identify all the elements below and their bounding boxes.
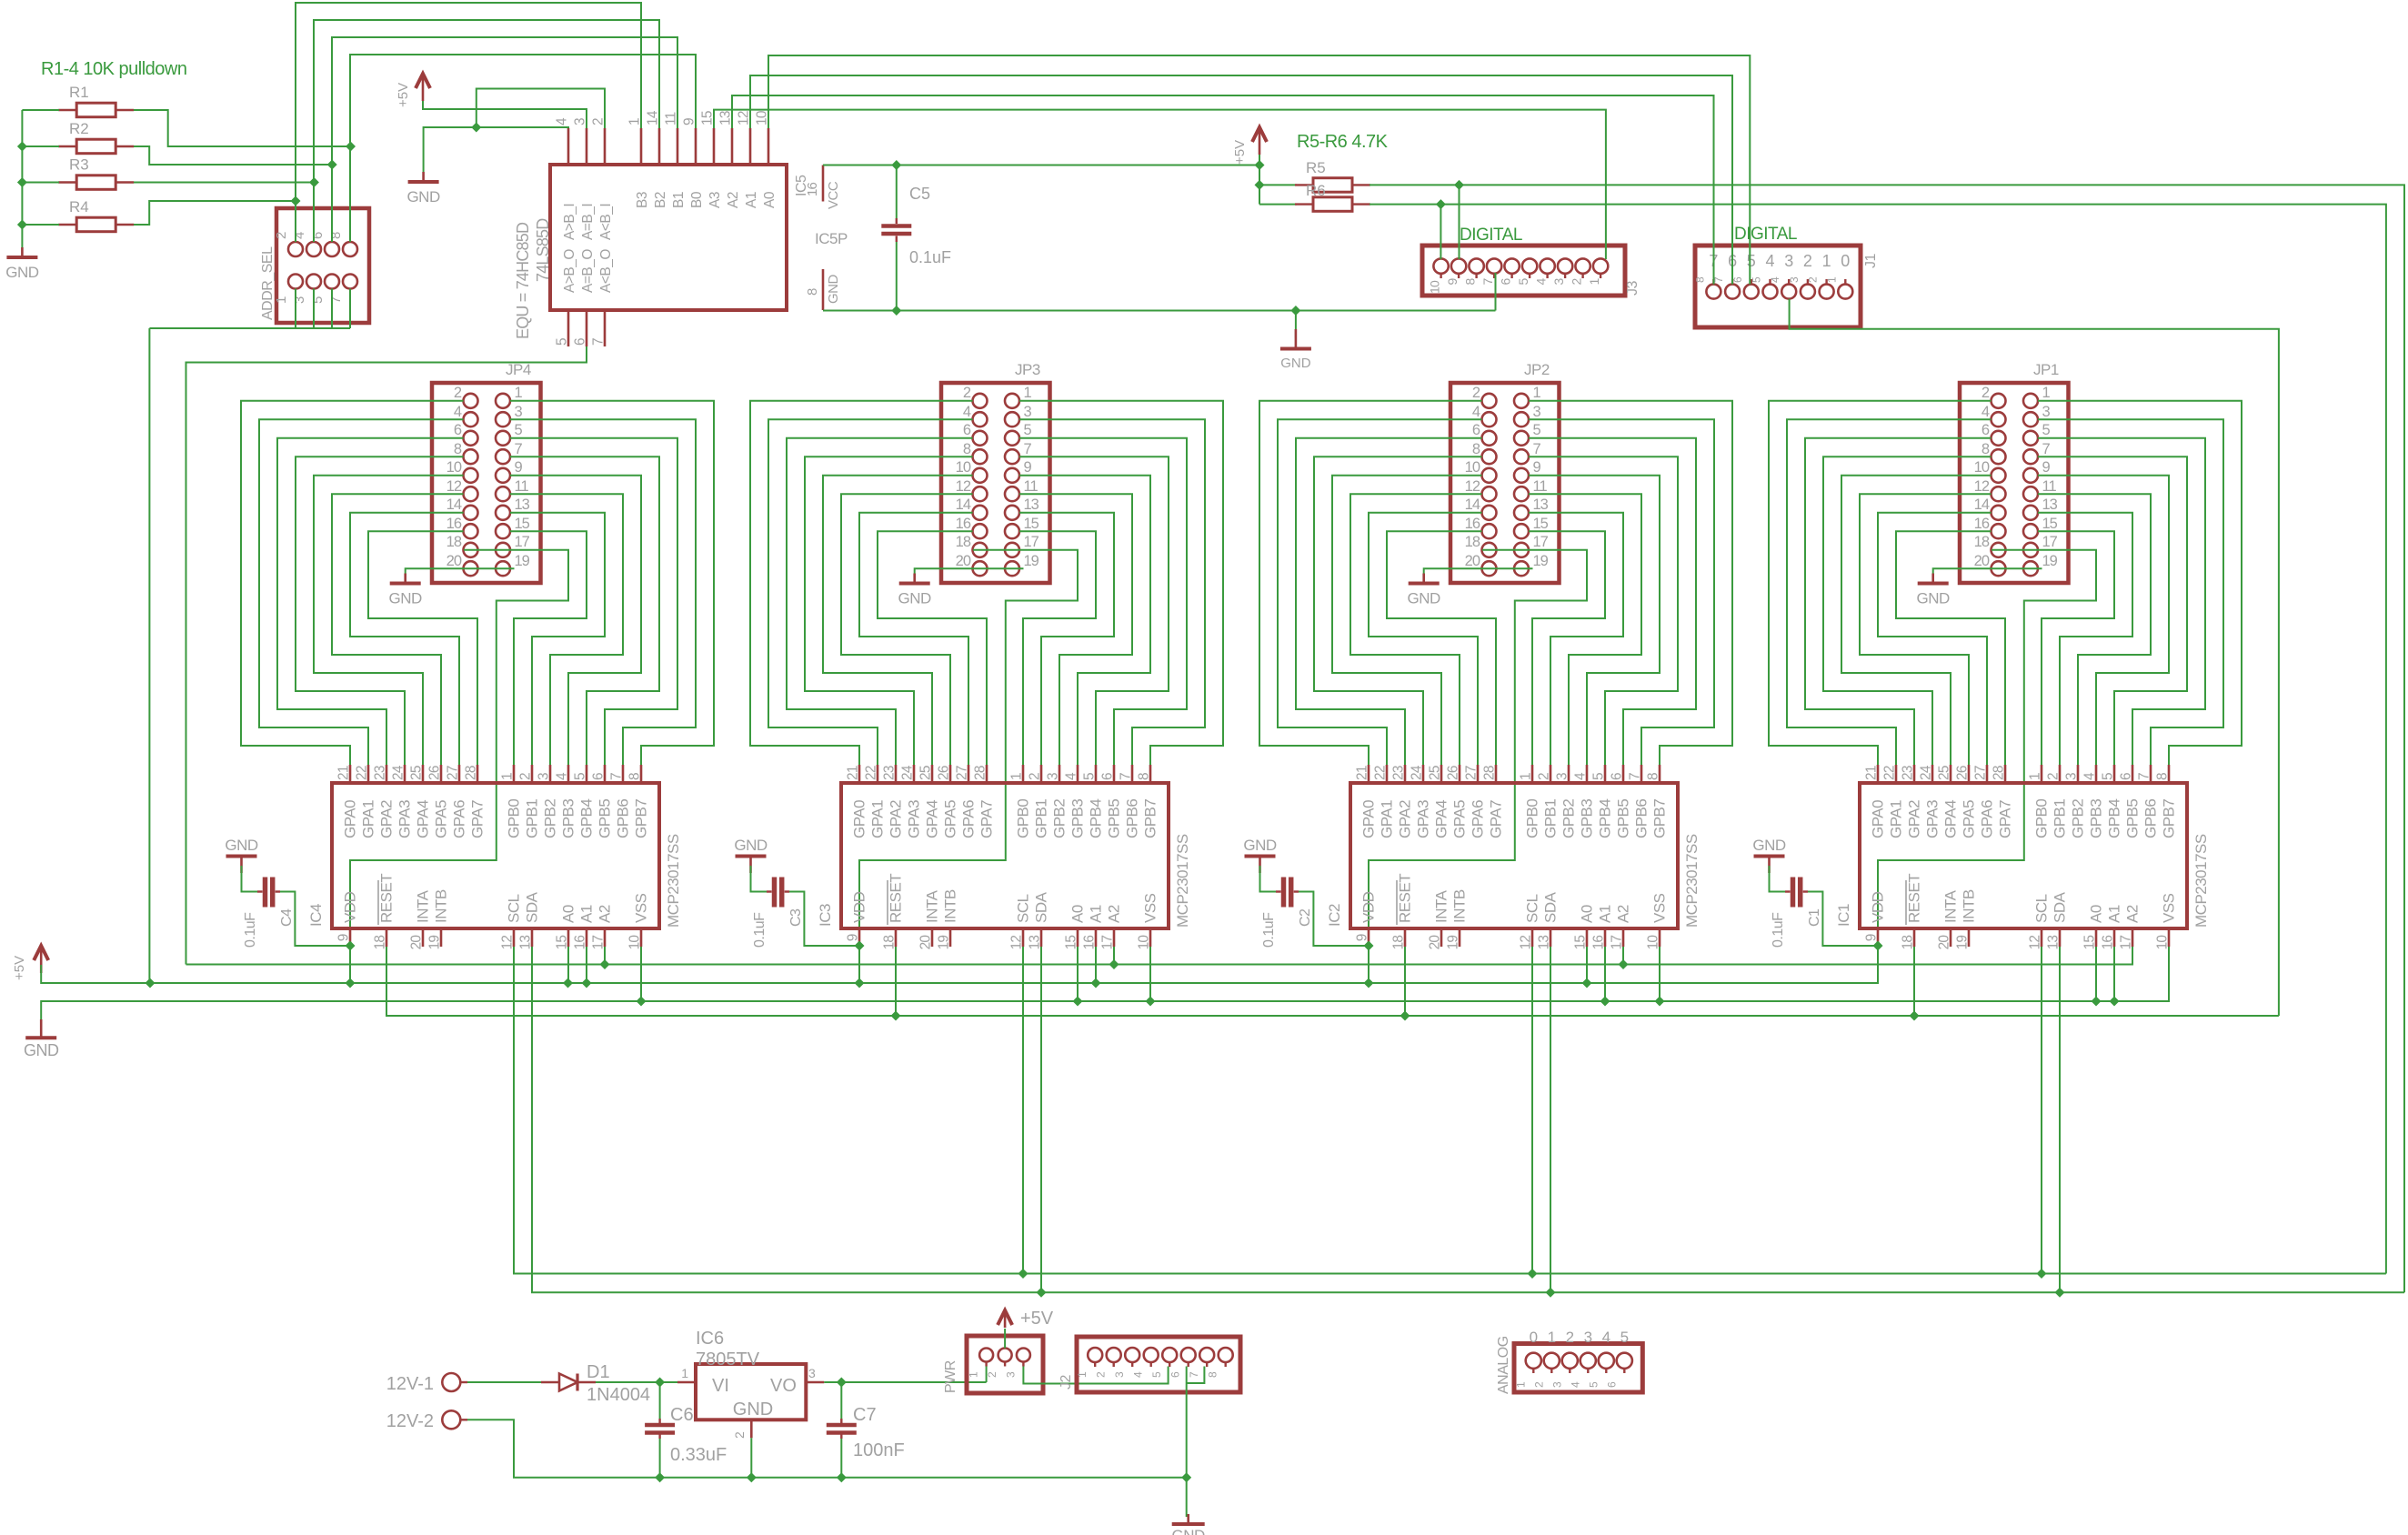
wire J2 pin6 to GND	[1186, 1367, 1188, 1518]
svg-text:J3: J3	[1625, 281, 1640, 296]
svg-text:GPA7: GPA7	[1997, 800, 2014, 838]
wire JP2 pin16 to GPA7	[1387, 531, 1496, 765]
svg-text:6: 6	[1982, 422, 1990, 438]
junction	[1546, 1288, 1556, 1298]
svg-text:3: 3	[1550, 1381, 1563, 1388]
junction	[327, 160, 337, 170]
svg-text:10: 10	[446, 459, 462, 476]
svg-text:A1: A1	[578, 905, 596, 923]
svg-text:11: 11	[1024, 478, 1038, 495]
svg-text:5: 5	[1620, 1329, 1629, 1346]
svg-text:VO: VO	[770, 1376, 797, 1396]
svg-text:RESET: RESET	[378, 874, 396, 923]
svg-text:C4: C4	[279, 908, 295, 927]
svg-text:12: 12	[1009, 936, 1025, 950]
svg-text:21: 21	[1355, 766, 1370, 780]
svg-text:GPA7: GPA7	[978, 800, 996, 838]
supply +5V (pullups)	[1232, 127, 1267, 165]
svg-text:GPB3: GPB3	[2088, 799, 2105, 838]
svg-text:VSS: VSS	[2161, 893, 2178, 923]
svg-text:1: 1	[1024, 385, 1032, 401]
svg-text:8: 8	[1137, 773, 1152, 780]
svg-text:19: 19	[1446, 936, 1461, 950]
wire R4 net	[134, 201, 296, 225]
wire ADDR_SEL common to +5V bus	[295, 289, 296, 329]
svg-text:25: 25	[409, 766, 425, 780]
svg-text:0: 0	[1530, 1329, 1538, 1346]
wire JP2 pin1 to GPB7	[1529, 401, 1732, 765]
wire SCL IC4	[513, 947, 515, 1274]
wire JP3 pin3 to GPB6	[1019, 419, 1205, 765]
svg-text:17: 17	[2119, 936, 2134, 950]
svg-text:15: 15	[1533, 516, 1549, 532]
wire VSS IC2	[1659, 947, 1661, 1001]
svg-text:INTB: INTB	[433, 889, 450, 923]
wire JP4 pins19-20 to GND	[406, 568, 515, 576]
svg-text:MCP23017SS: MCP23017SS	[1174, 834, 1191, 928]
wire JP1 pin7 to GPB4	[2038, 456, 2187, 765]
svg-text:1: 1	[627, 118, 643, 125]
capacitor C5 0.1uF	[881, 166, 951, 311]
svg-text:27: 27	[446, 766, 461, 780]
wire SCL IC1	[2041, 947, 2042, 1274]
wire SDA pullup net (R5)	[1370, 185, 2404, 1292]
svg-text:7: 7	[1533, 441, 1541, 457]
svg-text:16: 16	[1082, 936, 1098, 950]
svg-text:7: 7	[1119, 773, 1134, 780]
wire A2 IC2	[1622, 947, 1624, 965]
svg-text:7805TV: 7805TV	[696, 1349, 760, 1369]
svg-text:17: 17	[1100, 936, 1116, 950]
svg-text:2: 2	[1532, 1381, 1545, 1388]
wire JP2 pin4 to GPA1	[1278, 419, 1482, 765]
svg-text:23: 23	[1391, 766, 1407, 780]
wire JP3 pin4 to GPA1	[768, 419, 973, 765]
svg-text:9: 9	[1864, 934, 1880, 941]
svg-text:14: 14	[646, 110, 661, 125]
svg-text:GPB1: GPB1	[1033, 799, 1050, 838]
svg-text:IC6: IC6	[696, 1329, 724, 1349]
svg-text:20: 20	[956, 553, 971, 569]
capacitor C6 0.33uF	[645, 1382, 727, 1478]
svg-text:SDA: SDA	[2052, 891, 2069, 923]
junction (VDD IC2)	[1364, 941, 1374, 951]
svg-text:VSS: VSS	[1142, 893, 1159, 923]
junction	[346, 142, 356, 152]
svg-text:4: 4	[1534, 278, 1549, 286]
svg-text:R1-4 10K pulldown: R1-4 10K pulldown	[41, 59, 187, 79]
svg-text:6: 6	[2119, 773, 2134, 780]
svg-text:R5: R5	[1306, 159, 1326, 176]
ground (R1-R4)	[5, 247, 39, 281]
svg-text:R2: R2	[69, 120, 89, 137]
junction	[1255, 160, 1265, 170]
svg-text:12: 12	[2028, 936, 2043, 950]
IC IC4 MCP23017SS	[307, 765, 682, 949]
svg-text:GND: GND	[225, 837, 258, 854]
svg-text:RESET: RESET	[1397, 874, 1414, 923]
svg-text:JP3: JP3	[1015, 361, 1040, 378]
wire A0 IC3	[1077, 947, 1079, 1001]
wire JP2 pin10 to GPA4	[1332, 476, 1482, 765]
junction	[471, 123, 481, 133]
svg-text:5: 5	[1082, 773, 1098, 780]
junction	[1091, 978, 1101, 988]
svg-text:3: 3	[1046, 773, 1061, 780]
svg-text:8: 8	[2155, 773, 2171, 780]
svg-text:0.1uF: 0.1uF	[1261, 912, 1277, 948]
svg-text:4: 4	[1769, 276, 1781, 283]
ground (C4)	[225, 837, 258, 873]
wire net B2	[314, 20, 659, 242]
svg-text:1: 1	[1009, 773, 1025, 780]
svg-text:+5V: +5V	[1020, 1309, 1054, 1329]
wire JP4 pin3 to GPB6	[510, 419, 696, 765]
svg-text:GPB4: GPB4	[1088, 799, 1105, 838]
svg-text:GND: GND	[1408, 590, 1441, 607]
ground (power rail)	[1172, 1514, 1206, 1535]
svg-text:15: 15	[700, 111, 716, 125]
svg-text:18: 18	[1391, 936, 1407, 950]
svg-text:GPB3: GPB3	[1069, 799, 1087, 838]
svg-text:16: 16	[573, 936, 588, 950]
wire VDD IC1 to +5V bus	[1877, 947, 1879, 983]
svg-text:17: 17	[1610, 936, 1625, 950]
svg-text:1: 1	[500, 773, 516, 780]
wire JP3 pin7 to GPB4	[1019, 456, 1169, 765]
wire JP3 pin12 to GPA5	[841, 494, 973, 765]
IC U5P power pins	[805, 166, 848, 311]
svg-text:4: 4	[1132, 1371, 1145, 1378]
wire JP1 pin12 to GPA5	[1860, 494, 1992, 765]
svg-text:GND: GND	[1917, 590, 1951, 607]
svg-text:18: 18	[446, 534, 462, 550]
svg-text:3: 3	[1555, 773, 1570, 780]
wire JP2 pin6 to GPA2	[1296, 438, 1482, 765]
wire A2SEL net from IC5 pin6	[186, 346, 587, 965]
svg-text:JP2: JP2	[1524, 361, 1550, 378]
svg-text:2: 2	[1028, 773, 1043, 780]
junction	[1073, 997, 1083, 1007]
svg-text:J1: J1	[1863, 254, 1879, 269]
wire JP1 pin9 to GPB3	[2038, 476, 2169, 765]
svg-text:24: 24	[391, 765, 406, 780]
svg-text:GPA6: GPA6	[960, 800, 978, 838]
svg-text:GND: GND	[406, 188, 440, 206]
svg-text:A2: A2	[1106, 905, 1123, 923]
svg-text:DIGITAL: DIGITAL	[1734, 225, 1797, 244]
svg-text:A0: A0	[762, 191, 778, 208]
svg-text:16: 16	[2101, 936, 2116, 950]
wire JP1 pins19-20 to GND	[1933, 568, 2042, 576]
svg-text:100nF: 100nF	[853, 1440, 905, 1460]
svg-text:GPB6: GPB6	[1633, 799, 1650, 838]
svg-text:2: 2	[1807, 276, 1820, 283]
svg-text:17: 17	[515, 534, 530, 550]
svg-text:21: 21	[846, 766, 861, 780]
wire JP4 pin16 to GPA7	[368, 531, 477, 765]
wire A2 bus	[186, 947, 2133, 965]
supply +5V (PWR)	[998, 1309, 1054, 1329]
svg-text:GPA6: GPA6	[1979, 800, 1996, 838]
svg-text:GPA0: GPA0	[1870, 800, 1887, 838]
svg-text:25: 25	[918, 766, 934, 780]
svg-text:ADDR_SEL: ADDR_SEL	[260, 246, 276, 320]
wire JP4 pin5 to GPB5	[510, 438, 677, 765]
svg-text:GPB7: GPB7	[1651, 799, 1669, 838]
svg-text:13: 13	[515, 497, 530, 513]
svg-text:25: 25	[1428, 766, 1443, 780]
svg-text:GND: GND	[1172, 1527, 1206, 1535]
wire JP2 pin9 to GPB3	[1529, 476, 1660, 765]
wire SCL bus	[514, 947, 2386, 1274]
svg-text:12V-2: 12V-2	[386, 1411, 434, 1431]
svg-text:A3: A3	[707, 192, 723, 208]
svg-text:2: 2	[1537, 773, 1552, 780]
junction	[582, 978, 592, 988]
wire +5V bus	[41, 946, 1878, 983]
svg-text:GPA7: GPA7	[1488, 800, 1505, 838]
svg-text:2: 2	[518, 773, 534, 780]
svg-text:GND: GND	[1752, 837, 1786, 854]
svg-text:2: 2	[2046, 773, 2062, 780]
svg-text:IC4: IC4	[307, 904, 325, 927]
header ADDR_SEL	[260, 208, 369, 323]
ground (main rail)	[24, 1019, 59, 1059]
svg-text:SCL: SCL	[1015, 894, 1032, 923]
svg-text:2: 2	[454, 385, 462, 401]
wire R6 to J3 pin10	[1440, 205, 1441, 259]
svg-text:1: 1	[1533, 385, 1541, 401]
svg-text:0.1uF: 0.1uF	[243, 912, 258, 948]
svg-text:A0: A0	[1069, 905, 1087, 923]
wire RESET bus	[386, 947, 2279, 1016]
svg-text:GND: GND	[733, 1400, 773, 1420]
svg-text:C3: C3	[788, 908, 804, 927]
svg-text:17: 17	[1533, 534, 1549, 550]
svg-text:GPB0: GPB0	[506, 799, 523, 838]
svg-text:2: 2	[1570, 278, 1584, 286]
svg-text:6: 6	[591, 773, 607, 780]
svg-text:26: 26	[1446, 766, 1461, 780]
svg-text:8: 8	[328, 232, 344, 239]
svg-text:6: 6	[963, 422, 971, 438]
svg-text:GPA2: GPA2	[888, 800, 905, 838]
svg-text:A<B_O: A<B_O	[598, 249, 614, 293]
svg-text:GPB4: GPB4	[578, 799, 596, 838]
svg-text:GPA2: GPA2	[1906, 800, 1923, 838]
wire JP1 pins17-18 to VDD	[1878, 550, 2096, 928]
svg-text:GPA3: GPA3	[1415, 800, 1432, 838]
svg-text:18: 18	[373, 936, 388, 950]
junction	[1400, 1011, 1410, 1021]
svg-text:A1: A1	[1597, 905, 1614, 923]
svg-text:16: 16	[1974, 516, 1990, 532]
svg-text:J2: J2	[1059, 1375, 1074, 1390]
junction	[1364, 978, 1374, 988]
svg-text:GPA1: GPA1	[360, 800, 377, 838]
svg-text:GND: GND	[24, 1041, 59, 1059]
svg-text:GPA3: GPA3	[396, 800, 414, 838]
svg-text:27: 27	[1973, 766, 1989, 780]
svg-text:GPA5: GPA5	[433, 800, 450, 838]
svg-text:6: 6	[1605, 1381, 1618, 1388]
svg-text:14: 14	[446, 497, 462, 513]
svg-text:2: 2	[1982, 385, 1990, 401]
wire R5 to J3 pin9	[1459, 185, 1460, 259]
svg-text:5: 5	[1587, 1381, 1600, 1388]
wire JP3 pin16 to GPA7	[878, 531, 987, 765]
svg-text:0.33uF: 0.33uF	[670, 1445, 727, 1465]
svg-text:C1: C1	[1807, 908, 1822, 927]
svg-text:15: 15	[515, 516, 530, 532]
svg-text:GPB3: GPB3	[560, 799, 577, 838]
svg-text:7: 7	[1024, 441, 1032, 457]
junction	[2092, 997, 2102, 1007]
svg-text:13: 13	[1024, 497, 1039, 513]
wire SCL pullup net (R6)	[1370, 205, 2386, 1274]
junction	[1018, 1269, 1028, 1279]
svg-text:3: 3	[573, 118, 588, 125]
junction	[747, 1472, 757, 1482]
junction	[837, 1472, 847, 1482]
svg-text:5: 5	[1150, 1371, 1163, 1378]
svg-text:27: 27	[1464, 766, 1480, 780]
svg-text:A0: A0	[560, 905, 577, 923]
wire JP2 pin11 to GPB2	[1529, 494, 1641, 765]
svg-text:21: 21	[336, 766, 352, 780]
wire JP3 pin15 to GPB0	[1019, 531, 1096, 765]
svg-text:11: 11	[664, 112, 679, 125]
svg-text:R1: R1	[69, 84, 89, 101]
ground (C1)	[1752, 837, 1786, 873]
junction (VDD IC4)	[346, 941, 356, 951]
wire IC5 A0 to J1	[768, 55, 1750, 285]
wire J3 pin1 to IC5 A3	[714, 110, 1606, 259]
supply +5V (main rail)	[12, 946, 48, 980]
svg-text:7: 7	[609, 773, 625, 780]
svg-text:12: 12	[1519, 936, 1534, 950]
svg-text:19: 19	[515, 553, 530, 569]
svg-text:VCC: VCC	[826, 181, 841, 209]
header JP1	[1960, 361, 2069, 583]
svg-text:19: 19	[1533, 553, 1549, 569]
wire GND bus	[41, 947, 2169, 1019]
svg-text:4: 4	[454, 404, 462, 420]
junction	[1655, 997, 1665, 1007]
junction	[1146, 997, 1156, 1007]
svg-text:INTB: INTB	[1451, 889, 1469, 923]
svg-text:IC5P: IC5P	[815, 230, 848, 247]
ground (JP1)	[1917, 574, 1951, 607]
wire JP3 pin6 to GPA2	[787, 438, 973, 765]
wire JP3 pin11 to GPB2	[1019, 494, 1132, 765]
wire A2 IC4	[604, 947, 606, 965]
svg-text:INTA: INTA	[1942, 889, 1960, 923]
svg-text:VDD: VDD	[851, 891, 868, 923]
svg-text:GPA3: GPA3	[1924, 800, 1941, 838]
svg-text:20: 20	[918, 935, 934, 950]
svg-text:6: 6	[1472, 422, 1480, 438]
svg-text:16: 16	[956, 516, 971, 532]
wire A2 IC1	[2132, 947, 2133, 965]
svg-text:GPA0: GPA0	[1360, 800, 1378, 838]
capacitor C1 0.1uF	[1770, 866, 1879, 948]
svg-text:18: 18	[882, 936, 898, 950]
junction	[1600, 997, 1610, 1007]
wire JP1 pin10 to GPA4	[1841, 476, 1992, 765]
svg-text:6: 6	[1169, 1371, 1182, 1378]
svg-text:4: 4	[1765, 252, 1774, 270]
wire PWR pin3 to J2 pin5	[1023, 1367, 1168, 1384]
svg-text:3: 3	[1784, 252, 1793, 270]
svg-text:8: 8	[1472, 441, 1480, 457]
svg-text:6: 6	[310, 232, 326, 239]
svg-text:A=B_O: A=B_O	[580, 249, 596, 293]
ground (JP2)	[1408, 574, 1441, 607]
svg-text:18: 18	[1465, 534, 1480, 550]
svg-text:INTA: INTA	[1433, 889, 1450, 923]
svg-text:19: 19	[2042, 553, 2058, 569]
svg-text:5: 5	[1751, 276, 1763, 283]
svg-text:19: 19	[427, 936, 443, 950]
svg-text:INTB: INTB	[1961, 889, 1978, 923]
svg-text:2: 2	[274, 232, 289, 239]
svg-text:GPB3: GPB3	[1579, 799, 1596, 838]
svg-text:10: 10	[1646, 935, 1661, 950]
wire net B1	[332, 37, 677, 242]
svg-text:PWR: PWR	[943, 1360, 958, 1393]
svg-text:20: 20	[1465, 553, 1480, 569]
svg-text:A=B_I: A=B_I	[580, 204, 596, 240]
junction	[563, 978, 573, 988]
connector J1 DIGITAL	[1693, 246, 1879, 327]
svg-text:GPB4: GPB4	[2106, 799, 2123, 838]
svg-text:1: 1	[1076, 1371, 1089, 1378]
wire JP1 pin16 to GPA7	[1896, 531, 2005, 765]
svg-text:16: 16	[1465, 516, 1480, 532]
junction	[637, 997, 647, 1007]
junction	[17, 142, 27, 152]
svg-text:GPA4: GPA4	[924, 800, 941, 838]
wire +5V to R5 lead	[1259, 184, 1297, 186]
svg-text:4: 4	[1982, 404, 1990, 420]
svg-text:12: 12	[956, 478, 971, 495]
svg-text:1: 1	[515, 385, 523, 401]
svg-text:23: 23	[882, 766, 898, 780]
junction	[655, 1378, 665, 1388]
pad 12V-2	[386, 1410, 467, 1431]
svg-text:26: 26	[937, 766, 952, 780]
svg-text:R5-R6 4.7K: R5-R6 4.7K	[1297, 132, 1389, 152]
junction (VDD IC3)	[855, 941, 865, 951]
ground (IC5 inputs)	[406, 172, 440, 206]
svg-text:R3: R3	[69, 156, 89, 174]
wire SDA IC1	[2059, 947, 2061, 1292]
svg-text:INTB: INTB	[942, 889, 959, 923]
svg-text:SDA: SDA	[1542, 891, 1560, 923]
svg-text:GPB5: GPB5	[597, 799, 614, 838]
svg-text:10: 10	[755, 110, 770, 125]
wire JP4 pin10 to GPA4	[314, 476, 464, 765]
wire JP1 pin3 to GPB6	[2038, 419, 2223, 765]
svg-text:IC1: IC1	[1835, 904, 1852, 927]
svg-text:GPB1: GPB1	[2052, 799, 2069, 838]
svg-text:4: 4	[1602, 1329, 1610, 1346]
svg-text:6: 6	[1100, 773, 1116, 780]
svg-text:6: 6	[1499, 278, 1513, 286]
wire JP3 pins19-20 to GND	[915, 568, 1024, 576]
